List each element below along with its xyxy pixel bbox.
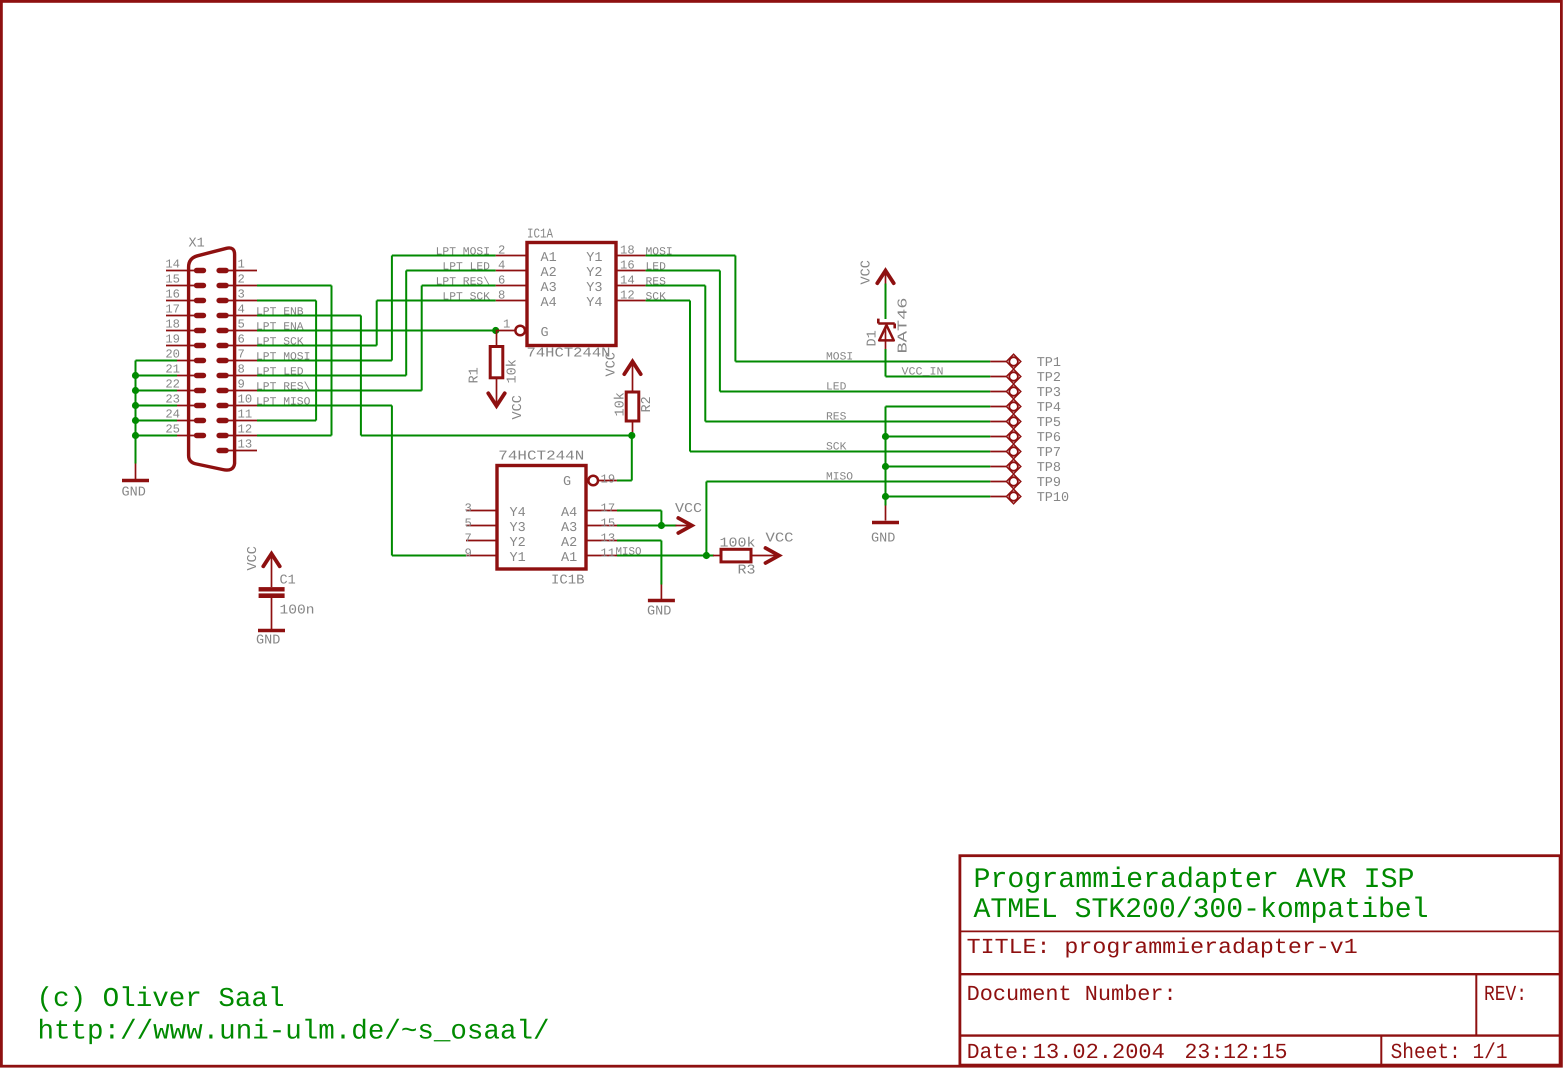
X1 pin 5 pad (216, 328, 228, 333)
X1 pin 17 pad (194, 313, 206, 318)
X1 pin 16 pad (194, 298, 206, 303)
svg-text:Y3: Y3 (510, 521, 526, 536)
wire LPT_MOSI net (257, 256, 496, 361)
svg-text:REV:: REV: (1484, 983, 1527, 1007)
svg-text:Programmieradapter AVR ISP: Programmieradapter AVR ISP (974, 864, 1415, 896)
wire LPT_LED net (257, 271, 496, 376)
svg-text:1: 1 (503, 318, 510, 332)
X1 pin 21 pad (194, 373, 206, 378)
IC1B pin 3 (Y4) (465, 501, 526, 521)
X1 pin 19 pad (194, 343, 206, 348)
svg-text:LPT MOSI: LPT MOSI (436, 246, 490, 258)
svg-text:VCC: VCC (246, 546, 261, 570)
svg-text:LED: LED (826, 382, 847, 394)
IC IC1A 74HCT244N buffer (496, 243, 646, 346)
IC1A pin 2 (A1) (498, 243, 557, 266)
svg-text:A1: A1 (561, 551, 577, 566)
X1 pin 8 lead (228, 375, 257, 377)
svg-text:MOSI: MOSI (646, 246, 673, 258)
svg-text:A2: A2 (561, 536, 577, 551)
svg-text:LED: LED (646, 261, 667, 273)
testpoint TP9 (990, 474, 1021, 489)
svg-text:100k: 100k (720, 537, 756, 552)
svg-text:MISO: MISO (826, 472, 853, 484)
X1 pin 17 lead (166, 315, 197, 317)
svg-text:GND: GND (122, 486, 146, 501)
X1 pin 25 pad (194, 433, 206, 438)
X1 pin 13 pad (216, 448, 228, 453)
svg-text:8: 8 (498, 288, 505, 302)
resistor R3 (713, 549, 751, 562)
svg-text:19: 19 (601, 473, 616, 487)
svg-text:Y1: Y1 (510, 551, 526, 566)
X1 pin 2 lead (228, 285, 257, 287)
supply VCC (C1) (263, 554, 279, 567)
X1 pin 11 pad (216, 418, 228, 423)
svg-text:7: 7 (465, 531, 472, 545)
testpoint TP6 (990, 429, 1021, 444)
X1 pin 6 pad (216, 343, 228, 348)
testpoint TP1 (990, 354, 1021, 369)
X1 pin 3 lead (228, 300, 257, 302)
wire pin13 to GND (617, 541, 661, 585)
Date field (967, 1041, 1288, 1065)
svg-text:TP1: TP1 (1037, 356, 1061, 371)
X1 pin 5 lead (228, 330, 257, 332)
wire pin17 to pin15 (617, 511, 661, 526)
svg-text:12: 12 (238, 423, 253, 437)
svg-text:RES: RES (646, 276, 667, 288)
junction MISO/R3 (703, 552, 710, 559)
IC1B pin 7 (Y2) (465, 531, 526, 551)
svg-text:100n: 100n (280, 604, 315, 619)
svg-text:8: 8 (238, 363, 245, 377)
X1 pin 13 lead (216, 450, 257, 452)
X1 pin 14 pad (194, 268, 206, 273)
svg-text:IC1B: IC1B (551, 574, 585, 589)
X1 pin 21 lead (176, 375, 197, 377)
svg-text:9: 9 (238, 378, 245, 392)
svg-text:Y4: Y4 (510, 506, 526, 521)
X1 pin 1 lead (228, 270, 257, 272)
svg-text:Sheet: 1/1: Sheet: 1/1 (1391, 1041, 1508, 1065)
svg-text:TP3: TP3 (1037, 386, 1061, 401)
wire VCC to D1 (885, 284, 887, 320)
X1 pin 6 lead (228, 345, 257, 347)
svg-text:10k: 10k (614, 392, 629, 416)
svg-text:5: 5 (238, 318, 245, 332)
X1 pin 22 pad (194, 388, 206, 393)
svg-text:TP5: TP5 (1037, 416, 1061, 431)
svg-text:13: 13 (601, 531, 616, 545)
IC1A pin 1 (G) (503, 318, 549, 341)
wire pin 25 to GND bus (136, 435, 178, 437)
wire LPT_MISO net (pin10 to IC1B pin9) (257, 406, 466, 556)
junction pin15/pin17 (658, 522, 665, 529)
IC1B pin 11 (A1) (561, 546, 615, 566)
X1 pin 24 pad (194, 418, 206, 423)
X1 pin 15 pad (194, 283, 206, 288)
svg-text:TITLE: programmieradapter-v1: TITLE: programmieradapter-v1 (967, 936, 1358, 960)
svg-text:9: 9 (465, 546, 472, 560)
wire LPT_ENB net (pin4 to R2/pin19) (257, 316, 632, 481)
wire LPT_ENA net (pin5 to IC1A G) (257, 330, 496, 332)
ground GND (IC1B) (648, 585, 675, 601)
testpoint TP10 (990, 489, 1021, 504)
X1 pin 14 lead (166, 270, 197, 272)
wire LPT_RES net (257, 286, 496, 391)
svg-text:2: 2 (238, 273, 245, 287)
svg-text:16: 16 (620, 258, 635, 272)
svg-text:23:12:15: 23:12:15 (1185, 1041, 1288, 1065)
X1 pin 4 pad (216, 313, 228, 318)
svg-text:D1: D1 (866, 330, 881, 346)
svg-text:4: 4 (238, 303, 245, 317)
wire pin3-pin11 net (257, 301, 316, 421)
ground GND (TP) (872, 506, 899, 523)
X1 pin 8 pad (216, 373, 228, 378)
IC1A pin 18 (Y1) (586, 243, 634, 266)
wire RES net (646, 286, 991, 422)
svg-text:14: 14 (620, 273, 635, 287)
IC IC1B 74HCT244N buffer (466, 466, 617, 570)
capacitor C1 (259, 587, 285, 629)
svg-text:13: 13 (238, 438, 253, 452)
X1 pin 23 lead (176, 405, 197, 407)
junction GND TP6 (882, 433, 889, 440)
svg-text:14: 14 (165, 258, 180, 272)
X1 pin 24 lead (176, 420, 197, 422)
X1 pin 12 lead (228, 435, 257, 437)
svg-text:VCC_IN: VCC_IN (902, 367, 944, 379)
svg-text:VCC: VCC (860, 260, 875, 284)
copyright text (37, 984, 550, 1048)
testpoint TP2 (990, 369, 1021, 384)
X1 pin 10 lead (228, 405, 257, 407)
svg-text:GND: GND (871, 532, 895, 547)
svg-text:VCC: VCC (675, 502, 702, 517)
IC1A pin 8 (A4) (498, 288, 557, 311)
junction R2 bottom (628, 432, 635, 439)
X1 pin 1 pad (216, 268, 228, 273)
svg-text:3: 3 (238, 288, 245, 302)
svg-text:TP8: TP8 (1037, 461, 1061, 476)
X1 pin 9 lead (228, 390, 257, 392)
svg-text:MOSI: MOSI (826, 352, 853, 364)
svg-text:A2: A2 (541, 266, 557, 281)
svg-text:GND: GND (256, 634, 280, 649)
svg-text:17: 17 (601, 501, 616, 515)
svg-text:A1: A1 (541, 251, 557, 266)
IC1B pin 17 (A4) (561, 501, 615, 521)
IC1A pin 6 (A3) (498, 273, 557, 296)
wire SCK net (646, 301, 991, 452)
svg-text:10k: 10k (506, 359, 521, 383)
X1 pin 20 lead (176, 360, 197, 362)
X1 pin 9 pad (216, 388, 228, 393)
svg-text:16: 16 (165, 288, 180, 302)
diode D1 BAT46 (schottky) (878, 319, 894, 349)
svg-text:TP9: TP9 (1037, 476, 1061, 491)
IC1A pin 4 (A2) (498, 258, 557, 281)
wire GND net (TP4/6/8/10) (886, 407, 991, 506)
supply VCC (IC1B enable) (678, 518, 692, 533)
wire pin 21 to GND bus (136, 375, 178, 377)
X1 pin 20 pad (194, 358, 206, 363)
svg-text:TP7: TP7 (1037, 446, 1061, 461)
svg-text:BAT46: BAT46 (897, 298, 912, 354)
svg-text:A4: A4 (561, 506, 577, 521)
supply VCC (above R2) (624, 362, 640, 375)
svg-text:R1: R1 (468, 367, 483, 383)
svg-text:12: 12 (620, 288, 635, 302)
svg-text:5: 5 (465, 516, 472, 530)
svg-text:74HCT244N: 74HCT244N (527, 347, 611, 362)
testpoint TP5 (990, 414, 1021, 429)
svg-text:6: 6 (238, 333, 245, 347)
IC1B pin 13 (A2) (561, 531, 615, 551)
X1 pin 15 lead (166, 285, 197, 287)
svg-text:Date:: Date: (967, 1041, 1031, 1065)
svg-text:LPT RES\: LPT RES\ (436, 276, 490, 288)
wire MOSI net (646, 256, 991, 362)
X1 pin 19 lead (166, 345, 197, 347)
svg-text:17: 17 (165, 303, 180, 317)
wire pin 23 to GND bus (136, 405, 178, 407)
svg-text:13.02.2004: 13.02.2004 (1033, 1041, 1165, 1065)
svg-text:RES: RES (826, 412, 847, 424)
supply VCC (below R1) (488, 393, 504, 406)
wire GND bus vertical (135, 361, 137, 464)
X1 pin 7 lead (228, 360, 257, 362)
junction GND bus pin 24 (132, 417, 139, 424)
resistor R1 (490, 331, 503, 406)
junction GND bus pin 23 (132, 402, 139, 409)
X1 pin 7 pad (216, 358, 228, 363)
svg-text:Y1: Y1 (586, 251, 602, 266)
svg-text:19: 19 (165, 333, 180, 347)
title block frame (960, 856, 1560, 1065)
IC1B pin 9 (Y1) (465, 546, 526, 566)
svg-text:IC1A: IC1A (527, 228, 554, 243)
svg-text:11: 11 (238, 408, 253, 422)
junction IC1A G / R1 (492, 327, 499, 334)
X1 pin 16 lead (166, 300, 197, 302)
svg-text:Y4: Y4 (586, 296, 602, 311)
svg-text:R2: R2 (640, 396, 655, 412)
svg-text:SCK: SCK (646, 291, 667, 303)
svg-text:SCK: SCK (826, 442, 847, 454)
svg-text:R3: R3 (738, 564, 756, 579)
supply VCC (above D1) (877, 271, 893, 284)
svg-text:Document Number:: Document Number: (967, 983, 1177, 1007)
X1 pin 25 lead (176, 435, 197, 437)
svg-text:15: 15 (165, 273, 180, 287)
svg-text:LPT SCK: LPT SCK (442, 291, 490, 303)
testpoint TP3 (990, 384, 1021, 399)
svg-text:18: 18 (620, 243, 635, 257)
testpoint TP7 (990, 444, 1021, 459)
wire LED net (646, 271, 991, 392)
svg-text:X1: X1 (189, 237, 205, 252)
svg-text:TP6: TP6 (1037, 431, 1061, 446)
X1 pin 18 pad (194, 328, 206, 333)
X1 pin 18 lead (166, 330, 197, 332)
ground GND (C1) (258, 629, 285, 632)
svg-text:LPT LED: LPT LED (442, 261, 490, 273)
connector X1 (DB25) body (189, 248, 235, 470)
svg-text:VCC: VCC (605, 352, 620, 376)
svg-text:TP4: TP4 (1037, 401, 1061, 416)
svg-text:15: 15 (601, 516, 616, 530)
svg-text:6: 6 (498, 273, 505, 287)
ground GND (X1) (122, 464, 149, 481)
svg-text:Y2: Y2 (586, 266, 602, 281)
X1 pin 3 pad (216, 298, 228, 303)
X1 pin 12 pad (216, 433, 228, 438)
svg-text:A3: A3 (541, 281, 557, 296)
wire pin 20 to GND bus (136, 360, 178, 362)
junction GND bus pin 25 (132, 432, 139, 439)
svg-text:VCC: VCC (511, 395, 526, 419)
svg-text:G: G (563, 475, 571, 490)
IC1B pin 15 (A3) (561, 516, 615, 536)
resistor R2 (626, 392, 639, 432)
testpoint TP8 (990, 459, 1021, 474)
X1 pin 22 lead (176, 390, 197, 392)
svg-text:2: 2 (498, 243, 505, 257)
supply VCC (R3) (766, 548, 780, 563)
IC1A pin 12 (Y4) (586, 288, 634, 311)
X1 pin 2 pad (216, 283, 228, 288)
svg-text:TP10: TP10 (1037, 491, 1069, 506)
svg-text:ATMEL STK200/300-kompatibel: ATMEL STK200/300-kompatibel (974, 894, 1429, 926)
wire pin 24 to GND bus (136, 420, 178, 422)
svg-text:GND: GND (647, 605, 671, 620)
svg-text:TP2: TP2 (1037, 371, 1061, 386)
svg-text:74HCT244N: 74HCT244N (498, 450, 584, 465)
wire VCC_IN net (886, 349, 991, 377)
wire pin2-pin12 net (257, 286, 332, 436)
wire pin 22 to GND bus (136, 390, 178, 392)
svg-text:4: 4 (498, 258, 505, 272)
svg-text:G: G (541, 326, 549, 341)
junction GND TP8 (882, 463, 889, 470)
svg-text:3: 3 (465, 501, 472, 515)
svg-text:C1: C1 (280, 574, 296, 589)
svg-text:A3: A3 (561, 521, 577, 536)
IC1B pin 5 (Y3) (465, 516, 526, 536)
junction GND TP10 (882, 493, 889, 500)
testpoint TP4 (990, 399, 1021, 414)
IC1B pin 19 (G) (563, 473, 615, 491)
X1 pin 4 lead (228, 315, 257, 317)
svg-text:MISO: MISO (616, 547, 642, 559)
IC1A pin 16 (Y2) (586, 258, 634, 281)
IC1A pin 14 (Y3) (586, 273, 634, 296)
junction GND bus pin 21 (132, 372, 139, 379)
svg-text:1: 1 (238, 258, 245, 272)
svg-text:10: 10 (238, 393, 253, 407)
wire pin15 to VCC (617, 525, 677, 527)
wire LPT_SCK net (257, 301, 496, 346)
svg-text:11: 11 (601, 546, 616, 560)
svg-text:18: 18 (165, 318, 180, 332)
svg-text:Y2: Y2 (510, 536, 526, 551)
svg-text:(c) Oliver Saal: (c) Oliver Saal (37, 984, 285, 1015)
svg-text:VCC: VCC (766, 532, 794, 547)
svg-text:Y3: Y3 (586, 281, 602, 296)
X1 pin 23 pad (194, 403, 206, 408)
svg-text:7: 7 (238, 348, 245, 362)
wire MISO net (617, 482, 990, 556)
X1 pin 10 pad (216, 403, 228, 408)
svg-text:A4: A4 (541, 296, 557, 311)
junction GND bus pin 22 (132, 387, 139, 394)
X1 pin 11 lead (228, 420, 257, 422)
svg-text:http://www.uni-ulm.de/~s_osaal: http://www.uni-ulm.de/~s_osaal/ (38, 1017, 550, 1048)
